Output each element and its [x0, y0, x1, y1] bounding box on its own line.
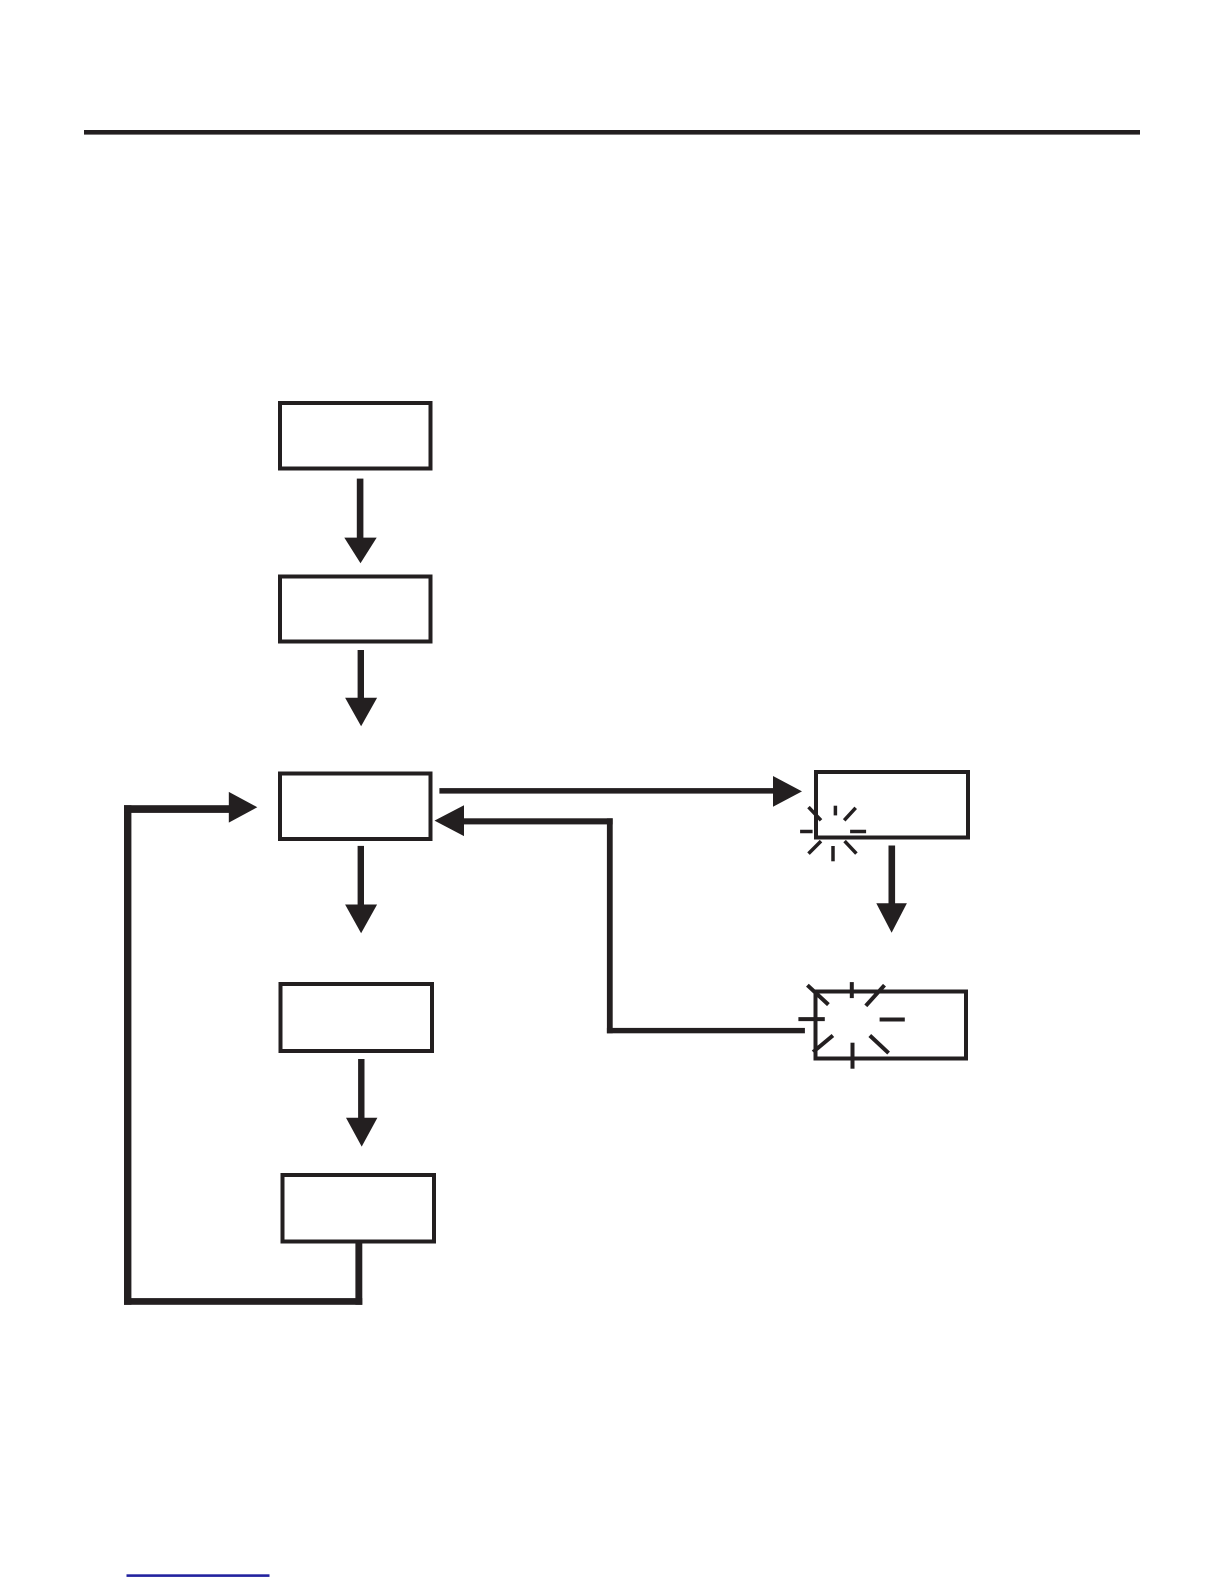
- box R2 (bottom right): [816, 992, 967, 1059]
- starburst on R2 (blinking indicator, large): [798, 982, 904, 1069]
- arrow A2 (B2 to B3): [345, 650, 377, 726]
- box B5 (bottom of flow): [283, 1175, 435, 1242]
- box B4: [281, 984, 433, 1051]
- wire return shaft (A7 horizontal): [464, 818, 613, 824]
- wire loop-left top segment: [124, 805, 230, 813]
- wire return bottom horizontal segment: [607, 1028, 805, 1033]
- box R1 (top right): [816, 772, 968, 838]
- arrow A1 (B1 to B2): [344, 479, 376, 564]
- arrow A8 head (loop into B3 left): [229, 792, 257, 823]
- wire loop-left vertical segment: [124, 805, 131, 1305]
- top horizontal rule: [84, 130, 1140, 135]
- arrow A7 head (return into B3 right): [435, 805, 465, 836]
- wire loop-left bottom segment: [124, 1298, 362, 1305]
- arrow A5 (R1 to R2): [876, 846, 907, 933]
- wire return vertical segment: [607, 818, 613, 1033]
- arrow A6 (B3 right to R1): [439, 776, 802, 807]
- box B3 (loop hub): [280, 774, 431, 840]
- arrow A3 (B3 to B4): [345, 846, 377, 933]
- starburst on R1 (blinking indicator): [800, 806, 866, 862]
- wire loop-left down segment (from B5 bottom): [355, 1244, 362, 1305]
- blue footer underline (link rule): [127, 1574, 270, 1577]
- box B1 (top of flow): [280, 403, 431, 469]
- box B2: [280, 577, 431, 642]
- arrow A4 (B4 to B5): [346, 1059, 377, 1147]
